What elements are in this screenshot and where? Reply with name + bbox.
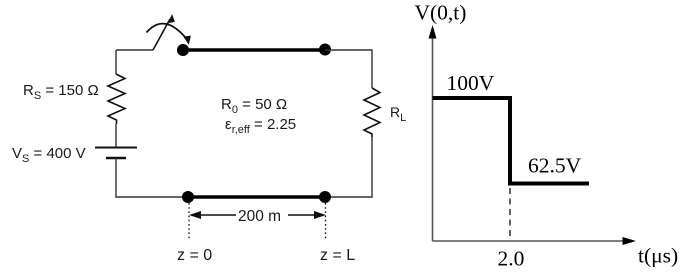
resistor RS	[108, 74, 125, 124]
transmission line bottom conductor	[188, 195, 325, 198]
svg-text:RL: RL	[390, 104, 406, 124]
wire top rail to switch	[116, 49, 153, 51]
dashed line at t=2.0	[509, 188, 511, 240]
dotted extension z=0	[188, 203, 190, 240]
node z=0 bottom	[182, 191, 194, 203]
switch arc arrowhead	[183, 36, 191, 45]
graph t axis	[433, 240, 627, 242]
graph V axis arrowhead	[429, 25, 437, 39]
svg-text:100V: 100V	[447, 71, 495, 95]
switch blade	[153, 19, 170, 50]
switch blade arrowhead	[168, 14, 175, 23]
svg-text:εr,eff = 2.25: εr,eff = 2.25	[225, 116, 296, 136]
svg-text:200 m: 200 m	[238, 208, 281, 225]
battery VS long plate	[95, 147, 137, 149]
battery VS short plate	[106, 157, 126, 159]
svg-text:RS = 150 Ω: RS = 150 Ω	[23, 82, 99, 102]
switch closing arc	[147, 24, 188, 40]
node z=0 top	[177, 44, 189, 56]
graph t axis arrowhead	[623, 237, 637, 245]
svg-text:VS = 400 V: VS = 400 V	[12, 145, 86, 165]
resistor RL	[364, 88, 380, 137]
svg-text:R0 = 50 Ω: R0 = 50 Ω	[221, 96, 287, 116]
svg-text:62.5V: 62.5V	[528, 154, 582, 178]
svg-text:z = L: z = L	[320, 247, 355, 264]
svg-text:t(μs): t(μs)	[638, 244, 678, 268]
svg-text:2.0: 2.0	[498, 247, 525, 271]
svg-text:z = 0: z = 0	[177, 247, 212, 264]
dimension line 200 m	[194, 214, 322, 216]
dotted extension z=L	[325, 203, 327, 240]
node z=L bottom	[319, 191, 331, 203]
node z=L top	[319, 44, 331, 56]
wire left vertical top segment	[115, 50, 117, 74]
waveform step	[433, 98, 590, 184]
wire RL to bottom rail	[325, 137, 372, 197]
wire battery to bottom rail	[116, 158, 188, 197]
svg-text:V(0,t): V(0,t)	[415, 1, 467, 25]
transmission line top conductor	[183, 48, 325, 51]
wire resistor to battery	[115, 124, 117, 148]
wire top rail right	[325, 50, 372, 88]
graph V axis	[432, 36, 434, 241]
